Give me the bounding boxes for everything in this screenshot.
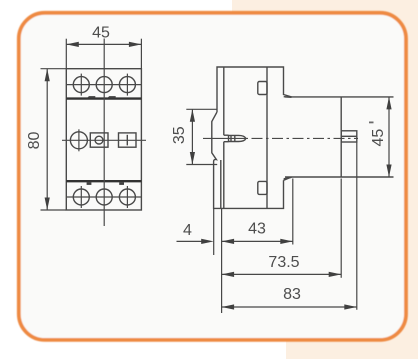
arrow dim45right up [386,97,391,110]
extension line mounting plane [221,208,223,313]
bottom chamfer thickness line [284,177,292,179]
bottom terminal crosshair 3 [126,186,128,208]
white corner block top-left [0,0,58,58]
dim 35 line [191,109,193,164]
test button inner circle [95,136,103,144]
side view bottom shelf [285,176,394,178]
DIN clip inner line 1 [230,135,232,141]
dim 45 top line [66,43,141,45]
top terminal crosshair 3 [126,74,128,96]
svg-text:73.5: 73.5 [268,254,299,271]
extension line 43 right [292,179,294,245]
stray tick near 45 right label [369,122,374,124]
svg-text:80: 80 [26,132,43,150]
svg-text:83: 83 [283,286,301,303]
dim 35 extension top [186,108,217,110]
arrow dim83 left [222,304,235,309]
arrow dim35 down [190,152,195,165]
bottom terminal crosshair 1 [80,186,82,208]
arrow dim83 right [344,304,357,309]
side view mounting plane line upper [223,67,225,135]
arrow dim80 up [45,69,50,82]
side view front face [340,97,342,177]
arrow dim73.5 left [222,272,235,277]
front view top separator [66,97,141,99]
svg-text:43: 43 [248,221,266,238]
extension line 73.5 right [340,179,342,278]
reset button inner tick [126,135,128,146]
dim 45 top extension left [65,39,67,69]
svg-text:35: 35 [171,126,188,144]
arrow dim4 right-pointing [201,239,214,244]
white strip bottom-left [0,341,286,359]
middle knob circle [70,132,87,149]
extension line 83 right [356,142,358,310]
arrow dim43 right [280,239,293,244]
side view notch top [258,82,267,95]
front knob [341,131,357,142]
reset button rectangle [119,133,137,147]
dim 45 top extension right [140,39,142,69]
side view centerline dash-dot [203,137,248,139]
top chamfer thickness line [284,96,292,99]
side view mounting plane line lower [223,142,225,209]
white strip top-left [0,0,232,13]
front knob mid line [341,135,357,137]
top terminal row centerline [66,84,141,86]
side view top shelf [285,96,394,98]
bottom terminal circle 2 [96,189,112,205]
middle row centerline [62,139,146,141]
svg-text:45: 45 [370,129,387,147]
side view centerline dashes [252,137,359,139]
clip connector top [224,134,229,136]
dim 4 leader [177,240,206,242]
side view outline [212,67,292,208]
bottom separator bump 1 [87,182,92,185]
arrow dim35 up [190,109,195,122]
top terminal circle 3 [119,77,135,93]
top separator bump 2 [107,96,116,98]
side view notch bottom [258,181,267,194]
dim 73.5 line [222,273,342,275]
svg-text:45: 45 [92,24,110,41]
dim 83 line [222,306,357,308]
white corner block bottom-left [0,302,58,359]
arrow dim43 left [222,239,235,244]
white strip left [0,0,18,359]
dim 80 extension top [41,68,67,70]
front view bottom separator [66,180,141,182]
dim 80 line [46,69,48,210]
top separator bump 1 [87,96,96,98]
side view ridge inner line [220,160,222,208]
arrow dim45top right [129,42,142,47]
bottom terminal circle 3 [119,189,135,205]
front view vertical centerline [103,39,105,227]
bottom terminal circle 1 [73,189,89,205]
bottom terminal row centerline [66,196,141,198]
arrow dim45top left [66,42,79,47]
top terminal circle 2 [96,77,112,93]
middle knob crosshair [78,129,80,151]
svg-text:4: 4 [183,222,192,239]
clip connector bottom [224,141,229,143]
extension line back hook [213,208,215,255]
top terminal crosshair 1 [80,74,82,96]
DIN clip inner line 2 [234,135,236,141]
dim 80 extension bottom [41,209,67,211]
DIN clip bullet [229,135,246,141]
dim 43 line [222,240,293,242]
arrow dim45right down [386,165,391,178]
dim 45 right line [388,97,390,177]
front view outline [66,69,141,210]
dim 35 extension bottom [186,164,217,166]
top terminal circle 1 [73,77,89,93]
side view inner vertical line [266,67,268,208]
arrow dim80 down [45,198,50,211]
test button rectangle [90,133,108,147]
bottom separator bump 2 [119,182,124,185]
arrow dim73.5 right [329,272,342,277]
